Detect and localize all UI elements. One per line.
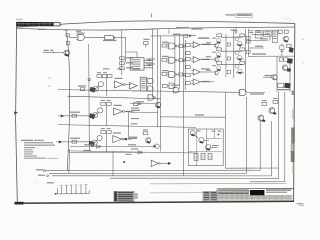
right band chain box xyxy=(280,46,284,52)
top right grid box G2 xyxy=(264,30,272,36)
black header stamp bar xyxy=(16,22,60,26)
vertical rail x160.5 xyxy=(160,36,162,152)
top right tall box G3 xyxy=(272,30,277,42)
driver row2 far boxes xyxy=(246,50,250,53)
vertical rail x157.3 xyxy=(156,29,158,127)
driver row1 right transistors Q12 xyxy=(235,34,245,47)
driver row1 far boxes xyxy=(246,36,250,43)
vertical rail x121.8 xyxy=(121,30,123,75)
frame resistor cell R82 xyxy=(208,153,212,159)
vertical rail x125.7 xyxy=(125,37,127,62)
resistor R13 xyxy=(144,39,150,48)
transistor Q23 xyxy=(269,108,276,115)
diode D2 xyxy=(138,151,142,154)
gate row3 resistor R22 xyxy=(162,70,169,75)
gate row2 out box xyxy=(179,59,186,62)
channel divider y151 xyxy=(67,151,196,153)
bus labels R41 xyxy=(257,30,261,33)
small text below border xyxy=(76,31,81,32)
tiny text below bottom-right corner xyxy=(297,203,305,206)
faint top-left page mark xyxy=(16,19,23,21)
transistor Q41 xyxy=(195,135,209,143)
resistor ladder R12 xyxy=(120,67,133,70)
label U1 xyxy=(77,33,85,34)
opamp U26 xyxy=(151,160,167,166)
vertical rail x246.3 with corner to bus xyxy=(49,97,246,173)
resistor ladder R11 xyxy=(120,62,133,65)
channel block1 opamp U21 xyxy=(129,82,139,91)
wire into U3 top xyxy=(126,52,137,58)
channel block2 transistors xyxy=(89,108,103,119)
sheet top border xyxy=(16,21,295,27)
block3 feed wire xyxy=(56,138,92,144)
sheet bottom border xyxy=(15,201,295,204)
vertical rail x179.6 xyxy=(179,36,181,89)
left border arrow mark xyxy=(14,112,18,115)
driver row3 left transistor Q16 xyxy=(212,61,221,71)
vertical rail x260.2 with corner to bus xyxy=(45,121,260,171)
right edge scan streak xyxy=(291,91,295,175)
block3 junction blob xyxy=(125,138,127,140)
small text under stamp xyxy=(38,29,68,31)
label +15V right xyxy=(252,53,266,54)
gate row1 out box xyxy=(179,45,186,48)
label U2 below xyxy=(103,40,117,41)
top-right document number label xyxy=(226,13,253,17)
block2 feed wire xyxy=(58,112,93,118)
wire y146.5 xyxy=(70,144,155,146)
wire with label y77 xyxy=(263,75,273,77)
component circle on wire xyxy=(154,144,160,148)
diode D1 on wire xyxy=(97,145,101,148)
transistor Q1 xyxy=(64,50,70,57)
vertical rail x290 xyxy=(289,60,291,92)
channel block3 opamp xyxy=(113,132,132,142)
U3 output wires xyxy=(144,60,153,68)
bus labels R40 xyxy=(249,30,253,33)
gate row1 resistor R20 xyxy=(162,42,169,47)
transistor Q20 xyxy=(283,36,288,43)
driver row2 left transistor Q13 xyxy=(212,48,221,58)
wire label y117 xyxy=(160,114,225,117)
dark blob right xyxy=(289,47,294,52)
resistor R43 xyxy=(287,44,292,47)
vertical rail x245.3 xyxy=(244,29,246,92)
resistor R51 xyxy=(273,98,278,103)
row wires across xyxy=(221,37,235,64)
gate U23c bottom xyxy=(148,95,155,100)
transistor Q33 xyxy=(155,102,160,108)
scan noise specks xyxy=(20,26,288,199)
gate row3 U6 xyxy=(167,71,179,77)
wire y112.3 with label xyxy=(130,110,158,113)
decoder gate U23b xyxy=(148,86,153,91)
opamp U10 xyxy=(191,79,209,85)
spare pin comb xyxy=(58,185,90,194)
comb label xyxy=(47,182,54,183)
top bus drop cap C1 xyxy=(231,27,238,34)
IC U3 box xyxy=(130,58,144,70)
gate U2 xyxy=(105,36,126,40)
frame resistor cell R80 xyxy=(194,153,198,160)
label pair xyxy=(129,138,137,139)
transistor Q40 xyxy=(190,130,200,136)
driver row1 left transistor Q10 xyxy=(212,34,221,44)
driver row1 left transistor Q11 xyxy=(214,43,218,47)
rail box B2 xyxy=(66,42,70,45)
+5V feed label xyxy=(44,50,53,51)
corner rail x225 to y168 xyxy=(225,130,278,169)
bus label SEE NOTE xyxy=(176,27,203,30)
sheet right border xyxy=(294,23,295,201)
block2 right box xyxy=(131,102,141,109)
resistor R50 xyxy=(262,100,267,105)
block1 feed resistor xyxy=(78,85,86,90)
long faint line y183.7 xyxy=(150,183,287,185)
vertical rail A x67 xyxy=(66,30,69,170)
channel divider y124.5 xyxy=(58,125,196,128)
driver row3 left transistor Q17 xyxy=(214,71,218,75)
junction ring on rail xyxy=(88,78,90,80)
junction dot xyxy=(123,161,125,163)
decoder box U22 xyxy=(140,77,146,91)
driver row3 mid box xyxy=(227,71,230,74)
bus left terminal label -15V xyxy=(38,175,48,177)
gate U11 mid right xyxy=(238,90,266,96)
driver row1 mid box xyxy=(227,43,230,46)
comb arrow xyxy=(55,193,59,195)
+15V rail label mid xyxy=(173,34,181,35)
channel block1 opamp U20 xyxy=(114,78,131,88)
channel block 1 resistors R60 R61 R62 xyxy=(97,72,112,77)
zone tick top middle xyxy=(151,14,153,18)
opamp input resistor bank xyxy=(186,44,191,85)
opamp U7 xyxy=(191,37,209,47)
driver row3 right transistors Q18 xyxy=(235,61,245,74)
corner scan streaks xyxy=(283,17,304,64)
channel block 2 resistors xyxy=(101,100,111,105)
arrow diamond xyxy=(168,162,172,165)
bus4 corner x278.5 xyxy=(110,92,279,178)
rail component box xyxy=(183,34,191,37)
gate row2 U5 xyxy=(167,57,179,63)
wire y48 with label xyxy=(248,46,263,48)
channel block2 opamp xyxy=(114,105,134,115)
transistor Q24 xyxy=(258,115,265,122)
vertical rail x88.7 xyxy=(88,44,91,151)
transistor Q22 xyxy=(272,75,277,81)
title block xyxy=(203,189,294,202)
resistor ladder R10 xyxy=(120,57,133,60)
channel block3 transistors xyxy=(88,135,102,146)
driver row2 right transistors Q15 xyxy=(235,48,245,61)
sheet left border xyxy=(16,26,18,203)
opamp U8 xyxy=(191,57,209,63)
block3 right labels xyxy=(126,137,139,155)
faint approval line xyxy=(150,192,203,194)
driver row side labels xyxy=(206,42,211,71)
channel divider y97 xyxy=(67,96,160,99)
top power bus xyxy=(17,27,295,30)
vertical rail A2 x69.6 xyxy=(68,149,71,173)
gate row2 resistor R21 xyxy=(162,56,169,61)
wire y40.5 with label xyxy=(248,38,268,40)
vertical rail x106.3 xyxy=(105,78,107,153)
opamp U9 xyxy=(191,68,209,75)
driver row2 left transistor Q14 xyxy=(214,57,218,61)
rail box B1 xyxy=(66,34,70,37)
right band tick xyxy=(281,43,283,56)
block2 right labels xyxy=(131,118,139,124)
+5V feed wire xyxy=(43,51,64,53)
vertical rail x128.6 xyxy=(128,112,130,140)
bottom mid resistor xyxy=(143,129,148,134)
frame resistor cell R81 xyxy=(201,153,205,159)
gate row1 U4 xyxy=(167,43,179,49)
connector x270 xyxy=(269,35,271,41)
channel block1 transistors Q30 Q31 xyxy=(89,82,103,93)
faint marks left area xyxy=(49,78,51,79)
vertical rail x225.4 xyxy=(224,92,226,129)
bus3 with corner x271.3 xyxy=(52,121,271,176)
gate row3 out box xyxy=(179,73,186,76)
revision history block xyxy=(114,191,138,201)
transistor Q42 xyxy=(206,145,219,151)
transistor Q21 xyxy=(282,65,291,72)
vertical x248.5 xyxy=(248,29,250,57)
vertical rail x233.8 xyxy=(233,29,235,78)
vertical rail x226 xyxy=(225,34,227,77)
gate U1 top-left xyxy=(70,34,105,40)
long mid wire y90 xyxy=(58,90,238,93)
outer corner x284.8 xyxy=(250,92,285,182)
output stage frame xyxy=(188,129,223,166)
top right grid box G1 xyxy=(255,31,262,38)
mid rail y56 xyxy=(248,55,294,57)
wire y103.5 xyxy=(130,101,155,103)
driver row2 mid box xyxy=(227,57,230,60)
vertical rails x183.3 x185 xyxy=(183,38,185,175)
gate U25 xyxy=(146,138,151,144)
+15V rail mid xyxy=(151,35,197,37)
vertical rail x174.9 xyxy=(174,36,176,89)
wire y34.5 xyxy=(251,34,270,36)
notes block text xyxy=(21,140,58,159)
dark cluster bottom right xyxy=(277,83,291,91)
U3 labels right xyxy=(146,58,155,64)
gate U24 xyxy=(171,85,179,93)
opamp out wires to drivers xyxy=(203,45,215,82)
channel block1 labels xyxy=(103,68,140,69)
boxes row mid right xyxy=(279,58,293,64)
vertical rail x113 xyxy=(112,151,114,176)
decoder gate U23a xyxy=(148,78,153,83)
right top resistor boxes xyxy=(278,30,288,33)
vertical rail x152.7 xyxy=(153,29,169,98)
gate row4 xyxy=(163,83,175,88)
bus left terminal labels +15V xyxy=(36,169,45,171)
channel block 3 resistors xyxy=(101,128,111,133)
wire y152.3 xyxy=(70,150,145,153)
vertical rail x277 xyxy=(276,56,278,92)
frame top right cells text xyxy=(211,131,221,136)
